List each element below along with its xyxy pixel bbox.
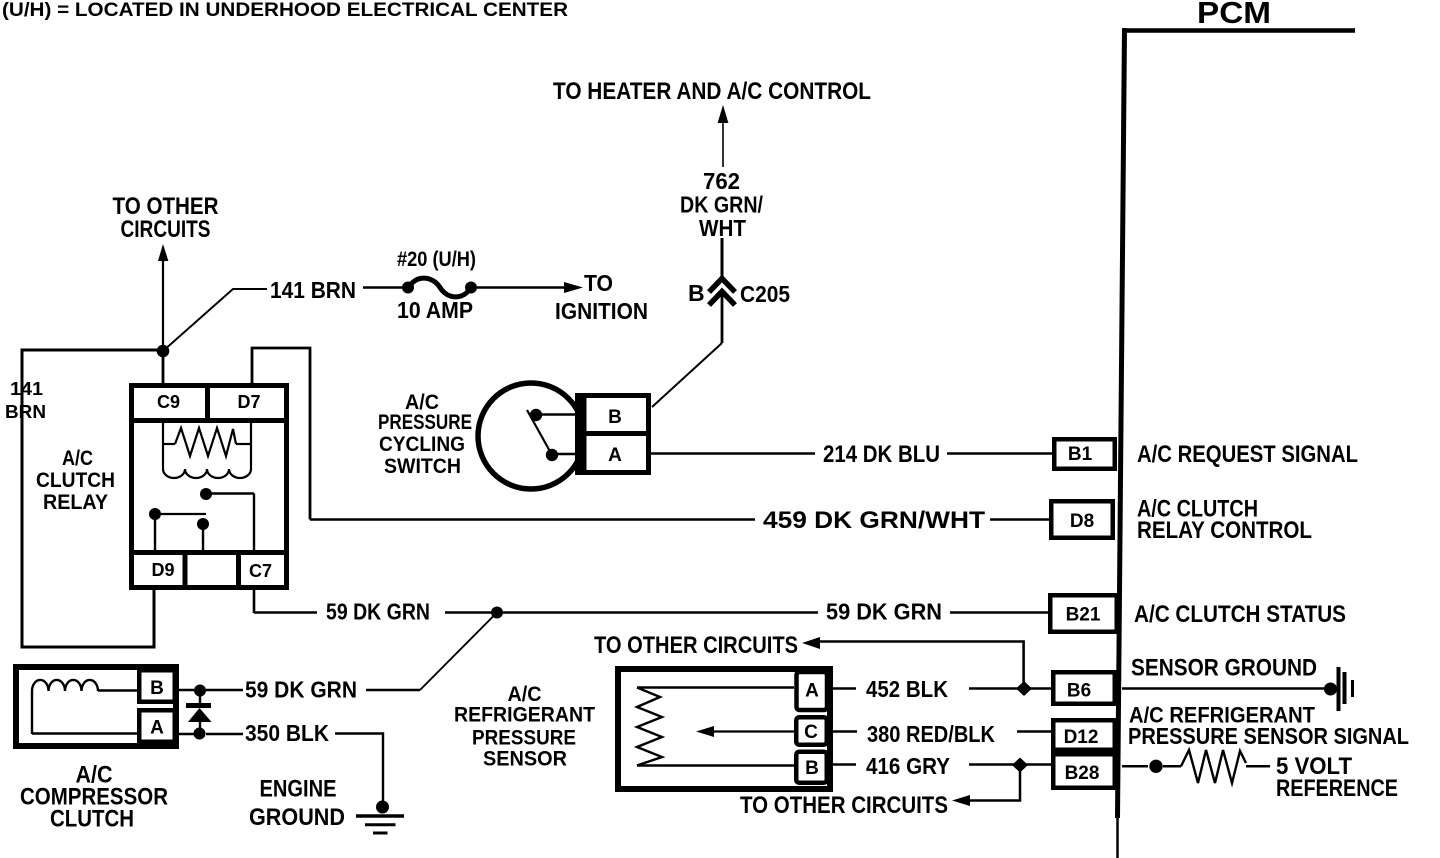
PCM connector vertical line (1118, 28, 1125, 818)
svg-text:C205: C205 (740, 281, 790, 307)
svg-text:10 AMP: 10 AMP (397, 297, 473, 323)
wire 141 BRN loop to relay D9 (22, 350, 160, 647)
svg-text:416 GRY: 416 GRY (866, 753, 950, 779)
arrow to other circuits (158, 244, 168, 261)
PCM pin box B28 (1053, 754, 1115, 788)
svg-text:A/C CLUTCH STATUS: A/C CLUTCH STATUS (1134, 601, 1346, 628)
svg-text:350 BLK: 350 BLK (245, 720, 329, 746)
svg-text:B6: B6 (1067, 681, 1091, 702)
PCM pin box D8 (1051, 501, 1113, 538)
wire 59 DK GRN right run to B21 (503, 611, 818, 613)
wire fuse to ignition arrow (477, 286, 566, 289)
svg-text:SENSOR: SENSOR (483, 748, 567, 771)
svg-text:B1: B1 (1068, 444, 1093, 465)
svg-text:RELAY: RELAY (43, 491, 108, 514)
svg-text:GROUND: GROUND (249, 804, 345, 831)
relay bottom terminal row bar (131, 550, 287, 555)
wire 762 above connector (721, 238, 724, 277)
ground symbol (sensor ground) (1324, 683, 1337, 696)
wire 59 DK GRN left run (254, 611, 317, 614)
switch box left border merged with circle arc (576, 397, 587, 471)
diode clutch suppression (199, 696, 201, 703)
sensor element zigzag (637, 688, 662, 766)
compressor clutch outer box (16, 667, 176, 746)
wire relay C7 down (253, 590, 256, 613)
svg-text:SENSOR GROUND: SENSOR GROUND (1131, 655, 1317, 682)
svg-text:BRN: BRN (5, 402, 46, 422)
svg-text:(U/H) = LOCATED IN UNDERHOOD E: (U/H) = LOCATED IN UNDERHOOD ELECTRICAL … (2, 0, 568, 21)
svg-text:RELAY CONTROL: RELAY CONTROL (1137, 517, 1312, 544)
svg-text:A: A (608, 445, 622, 466)
junction diamond on 416 GRY (1012, 758, 1028, 773)
svg-text:TO OTHER CIRCUITS: TO OTHER CIRCUITS (740, 792, 948, 819)
wire 350 BLK to engine ground (177, 733, 194, 736)
svg-text:B: B (150, 678, 164, 699)
svg-text:C: C (804, 722, 818, 743)
wire into fuse (363, 286, 403, 289)
resistor 5 volt reference (1181, 750, 1246, 783)
connector C205 chevrons (709, 279, 735, 293)
wire 452 BLK to PCM B6 (833, 687, 856, 690)
svg-text:452 BLK: 452 BLK (866, 676, 948, 702)
relay top terminal divider (205, 385, 210, 420)
arrow + wire to 452 BLK node (802, 637, 820, 649)
compressor pin box A (139, 710, 175, 742)
relay contact fixed (to C7) (200, 488, 212, 500)
junction diamond on 452 BLK (1016, 681, 1032, 696)
svg-text:IGNITION: IGNITION (555, 298, 648, 324)
svg-text:A: A (805, 681, 819, 702)
svg-text:59 DK GRN: 59 DK GRN (326, 599, 430, 625)
compressor coil (32, 680, 98, 691)
relay A/C clutch relay outer box (132, 386, 287, 588)
svg-text:B: B (688, 280, 705, 306)
relay coil (162, 423, 164, 469)
relay contact movable arm (from D9) (149, 508, 161, 520)
sensor pin box A (797, 672, 828, 710)
svg-text:#20 (U/H): #20 (U/H) (397, 248, 476, 271)
wire 214 DK BLU to PCM B1 (651, 452, 815, 455)
wire diagonal from switch B to C205 (652, 343, 722, 407)
wire 459 DK GRN/WHT run to PCM D8 (310, 518, 755, 521)
svg-text:DK GRN/: DK GRN/ (680, 192, 764, 218)
junction dot 59 DK GRN node (491, 607, 503, 619)
svg-text:TO HEATER AND A/C CONTROL: TO HEATER AND A/C CONTROL (553, 78, 871, 105)
svg-text:D9: D9 (151, 560, 174, 580)
svg-text:459 DK GRN/WHT: 459 DK GRN/WHT (763, 507, 985, 534)
switch contacts (530, 409, 542, 421)
svg-text:ENGINE: ENGINE (260, 776, 337, 803)
wire 416 GRY to PCM B28 (833, 763, 856, 766)
PCM pin box B1 (1054, 439, 1115, 469)
wire below C205 (721, 294, 724, 343)
svg-text:D8: D8 (1070, 511, 1094, 532)
svg-text:TO OTHER CIRCUITS: TO OTHER CIRCUITS (594, 632, 798, 659)
sensor wiper arrow (714, 730, 794, 732)
relay top terminal row bar (131, 418, 287, 423)
svg-text:B: B (805, 758, 819, 779)
svg-text:WHT: WHT (699, 215, 746, 241)
wire B6 to sensor ground symbol (1122, 687, 1325, 690)
PCM connector vertical line lower thin segment (1116, 816, 1119, 858)
svg-text:B: B (608, 407, 622, 428)
sensor A/C refrigerant pressure sensor outer box (618, 669, 830, 789)
wire B28 to 5 volt reference resistor (1122, 765, 1148, 768)
svg-text:PCM: PCM (1197, 0, 1271, 30)
svg-text:REFERENCE: REFERENCE (1276, 775, 1398, 802)
svg-text:59 DK GRN: 59 DK GRN (245, 677, 357, 703)
svg-text:REFRIGERANT: REFRIGERANT (454, 704, 595, 727)
relay bottom terminal dividers (183, 552, 188, 588)
svg-text:PRESSURE SENSOR SIGNAL: PRESSURE SENSOR SIGNAL (1128, 723, 1409, 749)
PCM pin box D12 (1053, 720, 1115, 750)
svg-text:CIRCUITS: CIRCUITS (121, 216, 211, 243)
sensor pin box B (796, 752, 827, 783)
svg-text:CLUTCH: CLUTCH (36, 469, 115, 492)
svg-text:A: A (150, 718, 164, 739)
engine ground symbol (376, 801, 389, 814)
fuse #20 10 AMP (402, 282, 414, 294)
wire 380 RED/BLK to PCM D12 (833, 730, 857, 733)
switch connector box B/A (578, 396, 649, 473)
svg-text:141 BRN: 141 BRN (270, 277, 356, 303)
svg-text:214 DK BLU: 214 DK BLU (823, 441, 940, 468)
arrow to heater control (718, 105, 729, 123)
svg-text:A/C: A/C (62, 447, 93, 470)
svg-text:TO: TO (584, 270, 613, 296)
wire down to other circuits (bottom) (969, 770, 1020, 801)
svg-text:380 RED/BLK: 380 RED/BLK (867, 721, 995, 747)
wire diagonal 59 DK GRN to compressor branch (420, 613, 497, 691)
svg-text:CYCLING: CYCLING (379, 433, 465, 456)
wire diagonal junction to 141 BRN label (163, 289, 267, 351)
junction dot 141 BRN node (157, 345, 170, 358)
wire 59 DK GRN to compressor B (177, 689, 194, 692)
svg-text:B21: B21 (1066, 605, 1101, 626)
svg-text:SWITCH: SWITCH (384, 455, 461, 478)
svg-text:A/C REQUEST SIGNAL: A/C REQUEST SIGNAL (1137, 441, 1358, 468)
svg-text:CLUTCH: CLUTCH (50, 806, 134, 833)
svg-text:762: 762 (703, 168, 740, 194)
switch A/C pressure cycling switch circle (478, 383, 584, 489)
relay contact center (to middle terminal) (197, 518, 209, 530)
svg-text:B28: B28 (1065, 763, 1100, 784)
svg-text:C9: C9 (157, 392, 180, 412)
svg-text:D7: D7 (237, 392, 260, 412)
svg-text:C7: C7 (249, 561, 272, 581)
PCM pin box B21 (1050, 595, 1117, 632)
svg-text:D12: D12 (1064, 727, 1099, 748)
svg-text:141: 141 (10, 379, 43, 399)
svg-text:59 DK GRN: 59 DK GRN (826, 599, 942, 625)
PCM connector top bar (1122, 28, 1355, 33)
wire junction to relay C9 (162, 351, 165, 383)
svg-text:PRESSURE: PRESSURE (378, 411, 472, 434)
compressor pin box B (139, 670, 175, 702)
svg-text:PRESSURE: PRESSURE (472, 727, 576, 750)
PCM pin box B6 (1053, 672, 1115, 704)
wire relay D7 up and over to 459 run (252, 348, 310, 520)
sensor pin box C (796, 717, 827, 745)
